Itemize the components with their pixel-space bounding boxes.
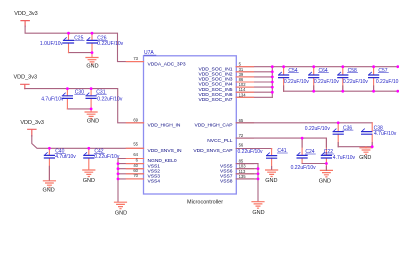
svg-text:C31: C31	[96, 89, 105, 95]
svg-text:VDD_SOC_IN7: VDD_SOC_IN7	[199, 97, 233, 103]
svg-text:C22: C22	[324, 149, 333, 155]
junction SOC rail C54	[282, 65, 285, 68]
wire VDD_SNVS_CAP (pin 56)	[236, 148, 271, 150]
svg-text:VDDA_ADC_3P3: VDDA_ADC_3P3	[148, 61, 186, 67]
svg-text:VDD_3v3: VDD_3v3	[14, 11, 38, 17]
svg-text:4.7uF/10v: 4.7uF/10v	[41, 96, 64, 102]
svg-text:VSS1: VSS1	[148, 163, 161, 169]
svg-text:GND: GND	[359, 155, 371, 161]
junction SOC bus row6	[271, 91, 274, 94]
wire VDD_SOC rail (pin 5 row)	[236, 66, 399, 68]
svg-text:C41: C41	[277, 148, 286, 154]
svg-text:VDD_HIGH_IN: VDD_HIGH_IN	[148, 123, 181, 129]
svg-text:64: 64	[133, 152, 138, 157]
capacitor C58	[338, 67, 369, 92]
svg-text:0.22uF/10v: 0.22uF/10v	[291, 165, 317, 171]
svg-text:VDD_SOC_IN2: VDD_SOC_IN2	[199, 72, 233, 78]
junction PLL C24	[301, 137, 304, 140]
capacitor C54	[279, 67, 310, 92]
junction BR C58	[341, 90, 344, 93]
svg-text:GND: GND	[319, 178, 331, 184]
svg-text:VDD_3v3: VDD_3v3	[14, 75, 38, 81]
junction rail1 C26	[91, 32, 94, 35]
ground GND (under C22)	[319, 170, 333, 184]
ground GND (under C40)	[42, 181, 55, 194]
junction SOC bus row3	[271, 76, 274, 79]
IC U7A Microcontroller body	[144, 56, 237, 194]
svg-text:VDD_SOC_IN3: VDD_SOC_IN3	[199, 77, 233, 83]
capacitor C36	[305, 123, 353, 147]
junction left bus VSS1	[117, 162, 120, 165]
svg-text:GND: GND	[86, 64, 98, 70]
U7A reference designator	[144, 50, 156, 56]
ground GND (under C41)	[265, 170, 277, 184]
junction SOC rail edge	[396, 65, 399, 68]
junction SOC rail C64	[312, 65, 315, 68]
svg-text:C64: C64	[319, 68, 328, 74]
pin 40 wire VSS2	[118, 168, 144, 170]
power symbol VDD_3v3 (net 3)	[20, 120, 44, 136]
svg-text:VDD_SOC_IN6: VDD_SOC_IN6	[199, 92, 233, 98]
capacitor C38	[362, 123, 397, 147]
svg-text:GND: GND	[87, 119, 99, 125]
svg-text:VDD_SNVS_IN: VDD_SNVS_IN	[148, 148, 182, 154]
svg-text:56: 56	[239, 142, 244, 147]
junction SOC rail C58	[341, 65, 344, 68]
capacitor C64	[309, 67, 340, 92]
pin 64 wire NGND_KEL0	[118, 158, 144, 160]
svg-text:C57: C57	[378, 68, 387, 74]
svg-text:VSS6: VSS6	[220, 168, 233, 174]
svg-text:69: 69	[133, 117, 138, 122]
ground GND (under C36/C38)	[359, 147, 372, 162]
svg-text:VSS5: VSS5	[220, 163, 233, 169]
svg-text:C24: C24	[305, 149, 314, 155]
junction BR edge	[396, 90, 399, 93]
left VSS ground bus wire	[117, 159, 119, 202]
capacitor C41	[267, 148, 288, 169]
svg-text:0.22uF/10v: 0.22uF/10v	[238, 149, 264, 155]
capacitor C24	[291, 138, 317, 171]
svg-text:4.7uF/10v: 4.7uF/10v	[374, 131, 397, 137]
junction left bus VSS3	[117, 172, 120, 175]
svg-text:0.22uF/10v: 0.22uF/10v	[314, 79, 340, 85]
svg-text:135: 135	[239, 174, 247, 179]
svg-text:GND: GND	[83, 178, 95, 184]
capacitor C25	[40, 33, 84, 52]
pin 6 wire VSS1	[118, 163, 144, 165]
junction B1 GND	[91, 51, 94, 54]
bottom rail of SOC caps	[284, 90, 399, 92]
svg-text:VDD_3v3: VDD_3v3	[20, 120, 44, 126]
svg-text:1.0UF/10v: 1.0UF/10v	[40, 41, 64, 47]
junction rail3 C40	[48, 147, 51, 150]
svg-text:4.7uF/10v: 4.7uF/10v	[333, 155, 356, 161]
svg-text:0.22uF/10v: 0.22uF/10v	[305, 126, 331, 132]
junction left bus VSS4	[117, 178, 120, 181]
pin 55 stub	[126, 147, 143, 149]
capacitor C31	[86, 89, 123, 109]
svg-text:VDD_SOC_IN4: VDD_SOC_IN4	[199, 82, 233, 88]
junction right bus VSS6	[257, 167, 260, 170]
junction rail2 C30	[66, 87, 69, 90]
svg-text:0.22uF/10v: 0.22uF/10v	[284, 79, 310, 85]
junction rail2 C31	[90, 87, 93, 90]
wire cap bottom C30-C31	[67, 108, 91, 110]
junction SOC rail bus	[271, 65, 274, 68]
svg-text:0.22uF/10: 0.22uF/10	[376, 79, 399, 85]
junction BR C64	[312, 90, 315, 93]
svg-text:VDD_SOC_IN5: VDD_SOC_IN5	[199, 87, 233, 93]
svg-text:70: 70	[133, 173, 138, 178]
svg-text:C25: C25	[74, 36, 83, 42]
svg-text:GND: GND	[42, 187, 54, 193]
junction C24-C22 bottom	[325, 162, 328, 165]
svg-text:C54: C54	[288, 68, 297, 74]
junction SOC rail C57	[372, 65, 375, 68]
VSS5-VSS8 stub wires	[236, 164, 258, 179]
ground GND (right VSS bus)	[252, 202, 265, 216]
svg-text:NVCC_PLL: NVCC_PLL	[207, 138, 233, 144]
wire segments on long cap leads	[49, 86, 373, 180]
junction right bus VSS7	[257, 172, 260, 175]
SOC pin stub wires rows 2-7	[236, 72, 272, 98]
junction HC bottom	[371, 145, 374, 148]
wire cap bottom C24-C22	[302, 163, 326, 165]
svg-text:VDD_HIGH_CAP: VDD_HIGH_CAP	[194, 123, 232, 129]
svg-text:VSS4: VSS4	[148, 179, 161, 185]
wire cap bottom C25-C26	[69, 52, 93, 54]
junction HC C36	[337, 121, 340, 124]
svg-text:GND: GND	[265, 178, 277, 184]
svg-text:C30: C30	[75, 89, 84, 95]
svg-text:C58: C58	[348, 68, 357, 74]
left pin stubs	[126, 159, 143, 179]
svg-text:VSS2: VSS2	[148, 168, 161, 174]
svg-text:0.22uF/10v: 0.22uF/10v	[94, 154, 120, 160]
svg-text:VSS7: VSS7	[220, 174, 233, 180]
junction right bus VSS8	[257, 178, 260, 181]
junction rail3 C42	[87, 147, 90, 150]
pin names left side	[148, 61, 186, 184]
svg-text:73: 73	[133, 56, 138, 61]
svg-text:72: 72	[239, 133, 244, 138]
ground GND (net 2)	[85, 109, 99, 125]
wire rail net VDD_HIGH_IN to pin 69	[25, 89, 144, 123]
pin 60 wire VSS3	[118, 173, 144, 175]
right VSS bus wire	[257, 164, 259, 202]
svg-text:VDD_SOC_IN1: VDD_SOC_IN1	[199, 66, 233, 72]
pin 69 stub	[126, 122, 143, 124]
ground GND (left VSS bus)	[115, 202, 128, 216]
svg-text:4.7uf/10v: 4.7uf/10v	[55, 154, 76, 160]
pin names right side	[193, 66, 232, 184]
junction SOC bus row5	[271, 86, 274, 89]
svg-text:NGND_KEL0: NGND_KEL0	[148, 158, 177, 164]
svg-text:VDD_SNVS_CAP: VDD_SNVS_CAP	[193, 148, 232, 154]
wire NVCC_PLL (pin 72)	[236, 137, 326, 139]
junction SOC bus row4	[271, 81, 274, 84]
capacitor C30	[41, 89, 85, 109]
svg-text:Microcontroller: Microcontroller	[187, 199, 223, 205]
pin 70 wire VSS4	[118, 178, 144, 180]
pin 73 stub	[126, 61, 143, 63]
svg-text:55: 55	[133, 142, 138, 147]
capacitor C57	[369, 67, 399, 92]
svg-text:VSS3: VSS3	[148, 174, 161, 180]
wire VDD_HIGH_CAP (pin 65)	[236, 122, 372, 124]
junction left bus VSS2	[117, 167, 120, 170]
svg-text:VSS8: VSS8	[220, 179, 233, 185]
capacitor C26	[87, 33, 124, 52]
right pin stubs (red)	[236, 67, 253, 179]
svg-text:0.22UF/10v: 0.22UF/10v	[97, 41, 123, 47]
svg-text:GND: GND	[115, 210, 127, 216]
wire rail net VDDA_ADC_3P3 to pin 73	[25, 26, 143, 62]
junction SOC bus row2	[271, 70, 274, 73]
wire rail net VDD_SNVS_IN to pin 55	[32, 136, 144, 149]
power symbol VDD_3v3 (net 2)	[14, 75, 38, 89]
ground GND (under C42)	[83, 170, 95, 184]
svg-text:C36: C36	[343, 125, 352, 131]
capacitor C40	[44, 148, 76, 180]
wire cap bottom C36-C38	[338, 146, 372, 148]
svg-text:134: 134	[239, 92, 247, 97]
svg-text:0.22uF/10v: 0.22uF/10v	[97, 96, 123, 102]
ground GND (net 1)	[86, 53, 99, 70]
junction BR C57	[372, 90, 375, 93]
svg-text:0.22uF/10v: 0.22uF/10v	[343, 79, 369, 85]
capacitor C42	[84, 148, 120, 169]
svg-text:65: 65	[239, 118, 244, 123]
capacitor C22	[321, 138, 355, 170]
junction rail1 C25	[67, 32, 70, 35]
junction B2 GND	[90, 108, 93, 111]
svg-text:GND: GND	[252, 210, 264, 216]
SOC bus vertical wire	[271, 67, 273, 98]
power symbol VDD_3v3 (net 1)	[14, 11, 38, 27]
